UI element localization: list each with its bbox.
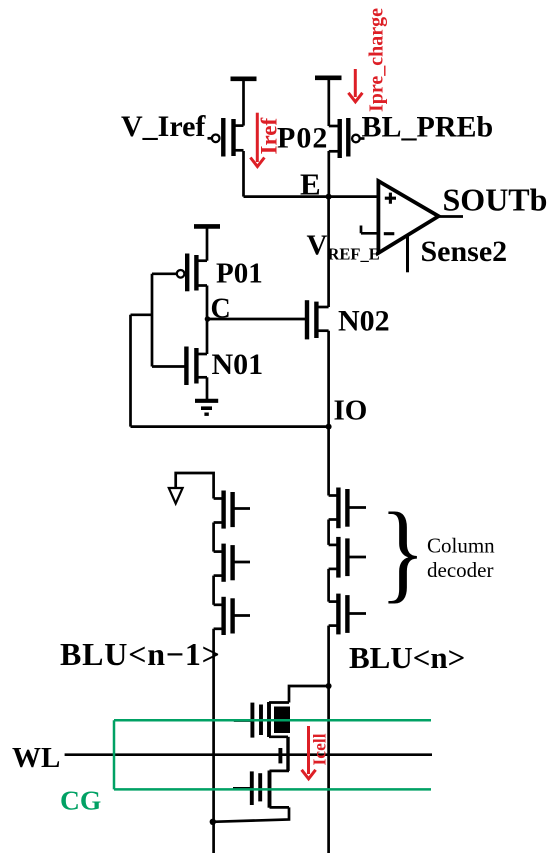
svg-text:}: }: [380, 491, 426, 613]
svg-text:WL: WL: [12, 742, 60, 774]
svg-text:IO: IO: [334, 395, 368, 427]
svg-text:Column: Column: [427, 534, 495, 558]
svg-text:V: V: [307, 230, 328, 262]
svg-text:V_Iref: V_Iref: [121, 110, 206, 143]
svg-text:REF_E: REF_E: [328, 245, 380, 264]
svg-text:P01: P01: [216, 258, 263, 290]
wire BLU<n-1> line down: [212, 629, 215, 853]
plus input marker: [385, 193, 396, 204]
svg-text:E: E: [300, 167, 321, 202]
wire cell interconnect (channel): [286, 737, 289, 771]
wire cell drain to BLU<n>: [289, 686, 329, 703]
select transistor M2 (bottom, CG bottom): [233, 771, 289, 808]
floating gate charge (black rect): [274, 707, 290, 734]
pmos P02: [329, 118, 365, 197]
wire BLU<n-1> column top / connector: [176, 473, 214, 499]
wl select transistor gate bar: [278, 748, 282, 763]
wire cell source to BLU<n-1>: [213, 807, 289, 821]
label V_REF_E: [307, 230, 380, 264]
node cell tap on BLU<n>: [326, 683, 332, 689]
nmos column decoder left T3: [214, 597, 250, 635]
svg-text:BLU<n−1>: BLU<n−1>: [60, 636, 221, 672]
node E junction dot: [326, 194, 332, 200]
nmos column decoder right T1: [329, 488, 366, 529]
wire node E horizontal: [244, 195, 379, 198]
flash cell M1 (floating-gate, CG top): [234, 702, 289, 738]
svg-text:CG: CG: [60, 785, 101, 816]
inverting input lead: [361, 226, 378, 234]
svg-text:BL_PREb: BL_PREb: [362, 111, 494, 144]
current arrow Ipre_charge: [348, 69, 362, 102]
wire: [212, 576, 215, 605]
svg-text:BLU<n>: BLU<n>: [349, 640, 465, 675]
svg-text:N01: N01: [212, 348, 264, 381]
pmos M_Iref (V_Iref transistor): [208, 118, 244, 197]
wire gate tie (P01/N01 gates to IO): [151, 274, 154, 367]
node IO junction dot: [326, 424, 332, 430]
pmos P01: [152, 254, 207, 320]
label Column decoder: [427, 534, 495, 583]
wire C to N02 gate: [208, 318, 307, 321]
VDD rail left: [231, 79, 257, 126]
VDD rail P01: [194, 226, 220, 260]
node cell tap on BLU<n-1>: [210, 819, 216, 825]
VDD rail right: [315, 78, 342, 126]
enable stub: [406, 236, 409, 272]
wire: [212, 523, 215, 552]
svg-text:SOUTb: SOUTb: [443, 182, 548, 218]
svg-text:Icell: Icell: [310, 733, 330, 765]
wire BLU<n> column: [327, 427, 330, 853]
current arrow Icell: [302, 726, 316, 779]
ground: [195, 401, 218, 414]
svg-text:P02: P02: [277, 122, 328, 155]
terminal triangle: [169, 488, 183, 504]
svg-text:N02: N02: [338, 305, 390, 338]
wire WL: [65, 753, 432, 756]
svg-text:Sense2: Sense2: [421, 235, 508, 268]
nmos column decoder right T2: [329, 537, 366, 578]
nmos column decoder left T1: [214, 491, 250, 529]
minus input marker: [384, 232, 395, 235]
wire E to N02 drain: [327, 197, 330, 307]
nmos column decoder right T3: [329, 594, 366, 635]
nmos N02: [307, 300, 329, 426]
nmos column decoder left T2: [214, 544, 250, 582]
nmos N01: [152, 319, 207, 399]
svg-text:decoder: decoder: [427, 558, 493, 582]
node C junction dot: [205, 316, 211, 322]
svg-text:Ipre_charge: Ipre_charge: [366, 8, 388, 112]
op-amp Sense2: [378, 181, 438, 253]
wire IO horizontal: [131, 425, 329, 428]
output lead SOUTb: [439, 215, 463, 218]
net CG box (green): [114, 720, 431, 789]
current arrow Iref: [250, 113, 264, 167]
